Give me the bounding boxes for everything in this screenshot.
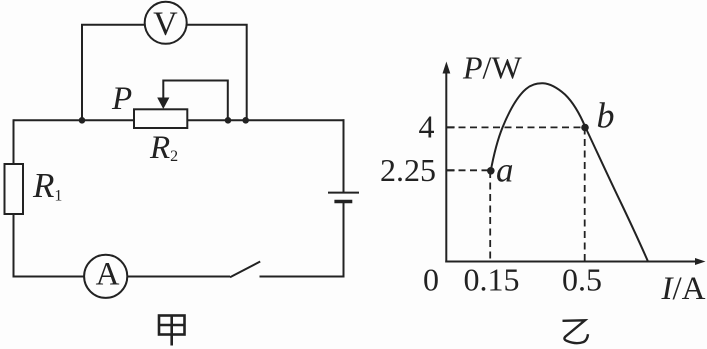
wire slider loop top [163,81,228,121]
label yi (Chinese) under graph [563,320,589,343]
svg-text:I/A: I/A [661,271,706,307]
wire voltmeter branch right [187,25,247,121]
node junction left [79,117,86,124]
graph y-axis arrowhead [443,62,451,74]
dashed line I=0.5 [584,128,586,262]
ammeter U2 circle [84,255,127,298]
voltmeter U1 circle [145,2,187,44]
wire voltmeter branch left [82,25,145,121]
resistor R1 [5,164,24,214]
wire bottom middle [127,276,230,278]
graph x-axis arrowhead [695,258,706,265]
battery negative plate [334,200,352,204]
dashed line P=4 [447,126,585,128]
svg-text:0: 0 [423,262,439,298]
svg-text:2.25: 2.25 [380,152,436,188]
rheostat R2 [134,109,187,128]
svg-text:P/W: P/W [462,50,522,86]
svg-text:V: V [153,6,178,43]
wire bottom left [14,276,85,278]
switch S arm [230,262,260,278]
svg-text:b: b [597,95,615,135]
svg-text:0.5: 0.5 [562,262,602,298]
svg-text:P: P [111,81,132,117]
svg-text:0.15: 0.15 [464,262,520,298]
svg-text:4: 4 [419,109,435,145]
wire top horizontal left segment [14,119,135,121]
graph x-axis [445,261,696,263]
wire left vertical lower [13,213,15,278]
power curve P(I) [491,83,649,261]
node a dot [487,167,495,175]
wire left vertical upper [13,119,15,165]
graph y-axis [445,71,447,263]
tick P=4 [447,126,455,128]
slider arrowhead [157,98,169,110]
dashed line I=0.15 [489,171,491,261]
wire right vertical lower [343,202,345,278]
node junction middle [225,117,232,124]
node junction right [242,117,249,124]
wire right vertical upper [343,119,345,192]
dashed line P=2.25 [447,169,491,171]
label jia (Chinese) under circuit [159,316,185,346]
tick P=2.25 [447,169,455,171]
battery positive plate [328,192,359,194]
svg-text:A: A [96,257,120,293]
wire top horizontal right segment [187,119,344,121]
svg-text:a: a [496,151,514,190]
node b dot [581,124,589,132]
wire bottom right [260,276,345,278]
